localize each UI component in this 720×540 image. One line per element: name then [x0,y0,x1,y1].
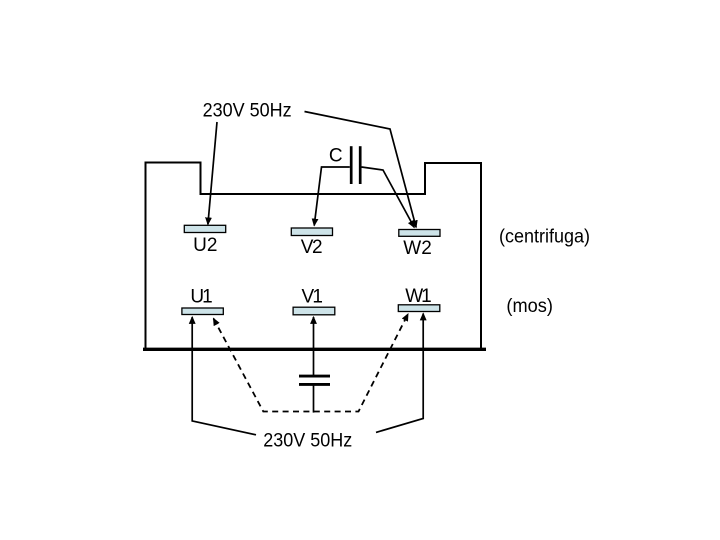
wire: capacitor left lead with arrow to V2 [314,167,350,226]
wire: right feed vertical with arrow up into W1 [376,314,423,433]
wire: V1 vertical lead with arrow up into V1 [313,317,315,377]
svg-text:C: C [329,146,343,167]
capacitor C (top) left plate [350,146,353,184]
svg-text:V1: V1 [302,287,323,308]
wire: lead from bottom capacitor down to dashed run [313,384,315,413]
svg-text:U2: U2 [193,235,217,256]
capacitor (bottom) top plate [299,375,330,378]
terminal U1 [182,308,223,315]
svg-text:U1: U1 [190,286,212,307]
svg-text:(mos): (mos) [506,296,553,317]
wire: arrow from top label to U2 [208,122,217,224]
svg-text:230V 50Hz: 230V 50Hz [263,431,352,452]
wire: capacitor right lead with arrow to W2 [362,167,415,227]
capacitor C (top) right plate [359,146,362,184]
svg-text:(centrifuga): (centrifuga) [499,226,590,247]
wire: arrow from top label to W2 [305,112,417,228]
svg-text:230V 50Hz: 230V 50Hz [203,100,292,121]
wire: left feed vertical with arrow up into U1 [192,317,256,435]
motor terminal box outline [146,163,482,350]
terminal W1 [398,305,440,312]
terminal V2 [291,228,332,236]
svg-text:W1: W1 [405,286,432,307]
capacitor (bottom) bottom plate [299,383,330,386]
motor box bottom edge [143,348,486,351]
terminal W2 [399,230,440,237]
svg-text:W2: W2 [403,238,432,259]
dashed wire from U1 to W1 via bottom run, arrows at both ends [214,314,409,412]
svg-text:V2: V2 [301,237,323,258]
terminal U2 [184,225,225,232]
terminal V1 [293,307,335,315]
